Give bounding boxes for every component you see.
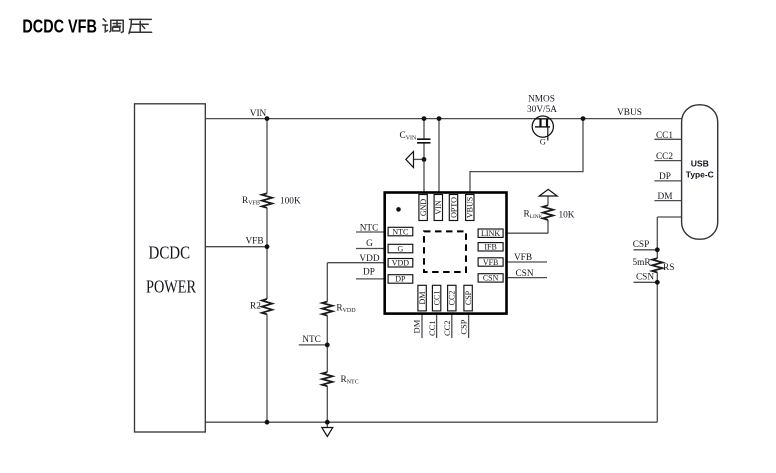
svg-text:CC2: CC2 (656, 152, 673, 162)
svg-text:Type-C: Type-C (686, 170, 714, 180)
svg-text:CC1: CC1 (427, 320, 437, 336)
svg-text:30V/5A: 30V/5A (527, 105, 557, 115)
svg-text:RVDD: RVDD (336, 304, 356, 315)
svg-text:G: G (398, 244, 404, 253)
svg-text:NTC: NTC (302, 335, 321, 345)
svg-text:VBUS: VBUS (466, 197, 475, 218)
svg-text:VFB: VFB (483, 258, 499, 267)
svg-text:NTC: NTC (360, 224, 379, 234)
svg-text:LINK: LINK (481, 229, 500, 238)
svg-text:CSN: CSN (515, 269, 533, 279)
svg-text:VIN: VIN (250, 109, 267, 119)
svg-text:DM: DM (412, 319, 422, 333)
svg-text:RNTC: RNTC (341, 375, 359, 386)
svg-text:G: G (540, 137, 546, 147)
svg-text:VFB: VFB (514, 253, 532, 263)
svg-text:DM: DM (658, 192, 673, 202)
svg-text:DCDC: DCDC (149, 243, 191, 263)
svg-text:VDD: VDD (359, 254, 379, 264)
svg-text:DP: DP (395, 275, 406, 284)
svg-text:CSP: CSP (464, 290, 473, 305)
svg-text:G: G (366, 239, 373, 249)
svg-text:CC1: CC1 (433, 291, 442, 306)
svg-text:VIN: VIN (434, 200, 443, 214)
svg-text:CC2: CC2 (448, 291, 457, 306)
svg-text:VFB: VFB (245, 237, 263, 247)
svg-text:CC1: CC1 (656, 131, 673, 141)
svg-text:OPTO: OPTO (449, 197, 458, 218)
svg-text:IFB: IFB (484, 243, 496, 252)
svg-text:10K: 10K (559, 210, 575, 220)
svg-text:CSP: CSP (633, 240, 650, 250)
svg-text:CSN: CSN (483, 274, 499, 283)
svg-text:NMOS: NMOS (528, 95, 555, 105)
svg-text:VBUS: VBUS (617, 108, 642, 118)
svg-text:RLINK: RLINK (524, 210, 543, 221)
svg-text:RS: RS (663, 263, 674, 273)
svg-text:100K: 100K (280, 197, 301, 207)
svg-text:NTC: NTC (392, 227, 408, 236)
svg-text:DP: DP (659, 172, 671, 182)
svg-text:VDD: VDD (392, 259, 410, 268)
svg-text:USB: USB (691, 159, 709, 169)
svg-text:CSP: CSP (459, 319, 469, 334)
svg-text:GND: GND (419, 199, 428, 217)
svg-text:CSN: CSN (636, 273, 654, 283)
svg-text:RVFB: RVFB (242, 196, 260, 207)
svg-text:DM: DM (418, 292, 427, 305)
svg-text:POWER: POWER (146, 277, 196, 297)
svg-text:CVIN: CVIN (400, 131, 418, 142)
svg-text:DP: DP (363, 268, 375, 278)
svg-text:DCDC VFB: DCDC VFB (22, 16, 97, 37)
svg-text:R2: R2 (250, 302, 261, 312)
svg-text:5mR: 5mR (632, 258, 651, 268)
svg-text:CC2: CC2 (442, 320, 452, 336)
